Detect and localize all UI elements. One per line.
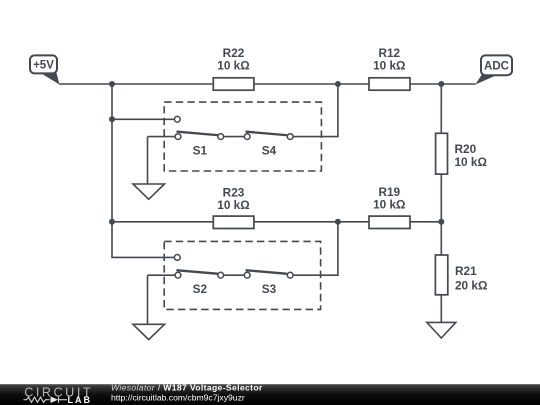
- svg-text:S4: S4: [262, 143, 277, 157]
- svg-text:10 kΩ: 10 kΩ: [373, 198, 405, 212]
- svg-text:10 kΩ: 10 kΩ: [217, 198, 249, 212]
- svg-text:10 kΩ: 10 kΩ: [455, 155, 487, 169]
- svg-text:ADC: ADC: [484, 60, 509, 72]
- svg-text:LAB: LAB: [68, 395, 93, 405]
- svg-text:R21: R21: [455, 264, 477, 278]
- svg-text:+5V: +5V: [33, 60, 54, 72]
- svg-text:20 kΩ: 20 kΩ: [455, 278, 487, 292]
- svg-text:S2: S2: [193, 282, 208, 296]
- svg-text:http://circuitlab.com/cbm9c7jx: http://circuitlab.com/cbm9c7jxy9uzr: [111, 393, 245, 403]
- svg-text:10 kΩ: 10 kΩ: [217, 59, 249, 73]
- svg-text:S3: S3: [262, 282, 277, 296]
- svg-text:Wiesolator / W187 Voltage-Sele: Wiesolator / W187 Voltage-Selector: [111, 382, 263, 392]
- svg-text:10 kΩ: 10 kΩ: [373, 59, 405, 73]
- svg-text:S1: S1: [193, 143, 208, 157]
